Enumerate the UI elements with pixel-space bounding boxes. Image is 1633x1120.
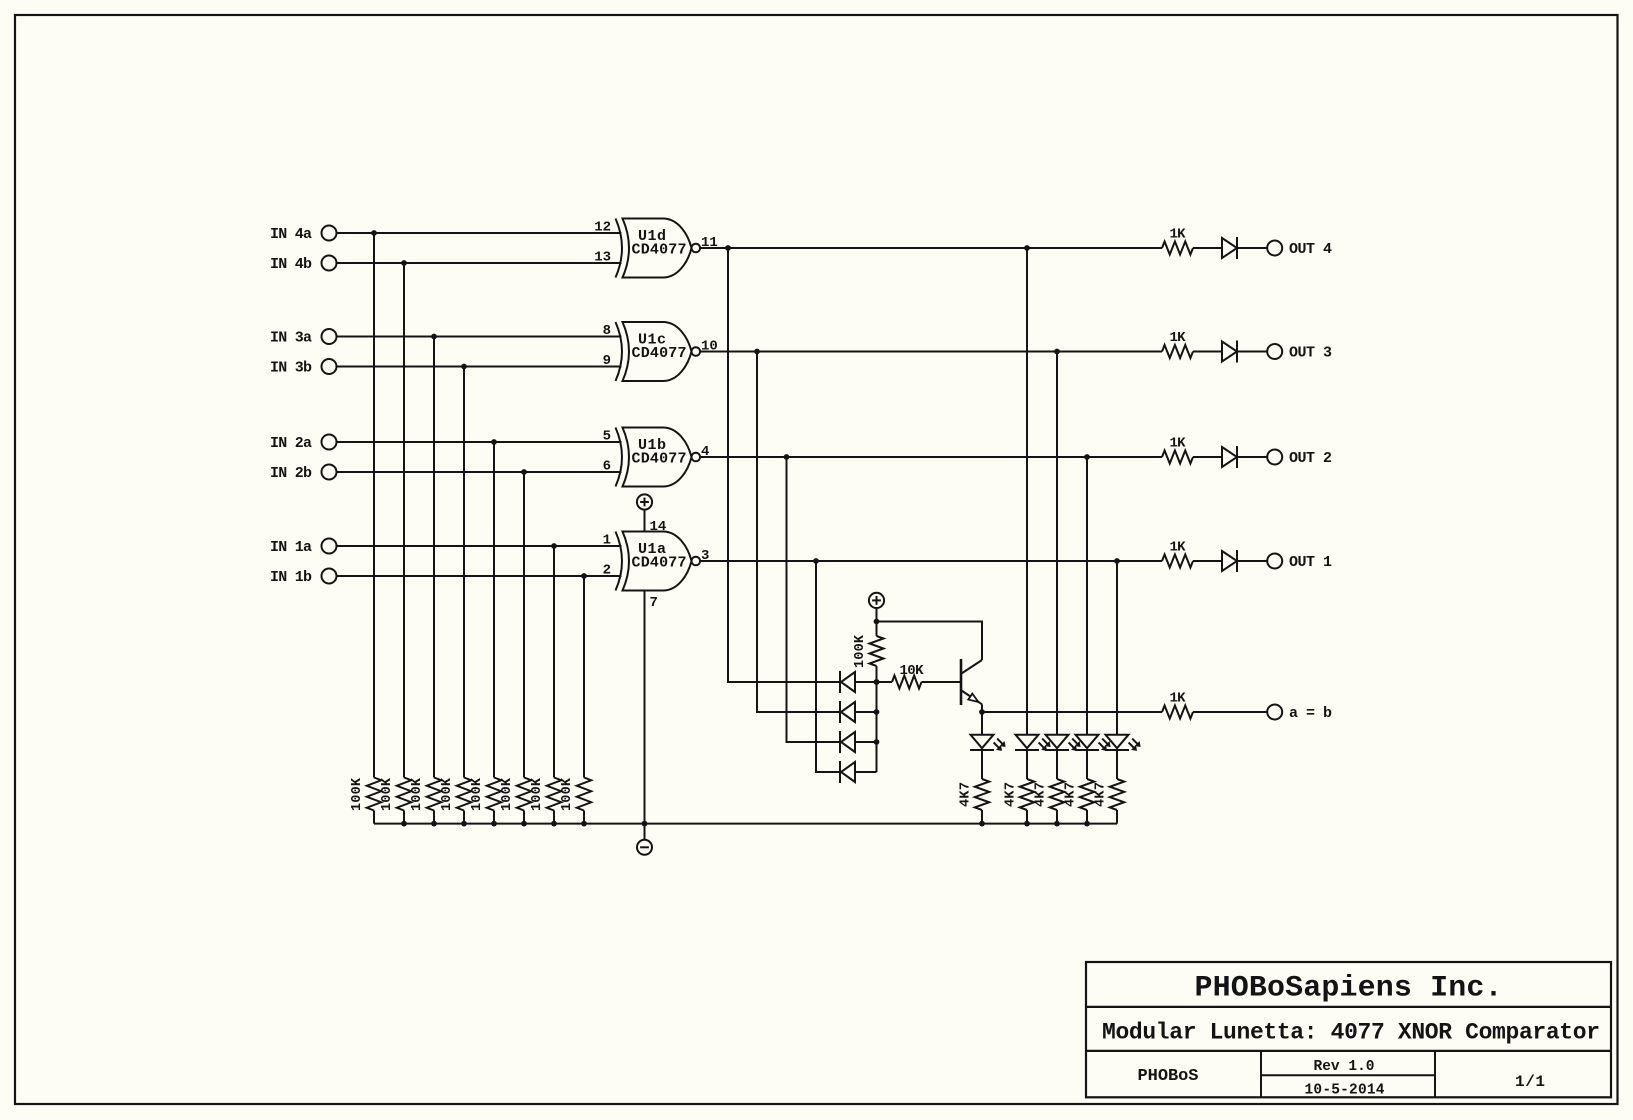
diode D4 wired-AND (from U1a output) xyxy=(839,761,841,783)
wire 100K #3 to ground bus xyxy=(433,811,435,824)
wire diode D4 anode to common node xyxy=(855,771,877,773)
resistor 4K7 #3 xyxy=(1050,779,1064,810)
wire 10K to transistor base xyxy=(922,681,961,683)
output bubble U1c xyxy=(692,347,701,356)
resistor 100K pulldown #1 xyxy=(367,778,381,811)
wire 100K #4 to ground bus xyxy=(463,811,465,824)
wire 1K to diode (OUT 2 row) xyxy=(1193,456,1222,458)
svg-text:2: 2 xyxy=(603,563,611,579)
resistor 10K base xyxy=(892,676,922,689)
svg-text:12: 12 xyxy=(594,220,611,236)
node junction 4K7 #2 on ground bus xyxy=(1024,821,1030,827)
op-amp-style XNOR gate U1a CD4077 body xyxy=(616,532,623,591)
wire U1d output to 1K resistor xyxy=(700,247,1162,249)
node junction IN 4a xyxy=(371,230,377,236)
svg-text:Modular Lunetta: 4077 XNOR Com: Modular Lunetta: 4077 XNOR Comparator xyxy=(1102,1020,1600,1046)
wire 1K to a=b terminal xyxy=(1193,711,1267,713)
resistor 100K pulldown #8 xyxy=(577,778,591,811)
node junction IN 3b xyxy=(461,364,467,370)
LED D5 xyxy=(981,712,983,735)
title block rev/date divider xyxy=(1261,1074,1435,1076)
svg-text:4K7: 4K7 xyxy=(959,782,974,807)
wire emitter to junction xyxy=(981,704,983,712)
svg-text:CD4077: CD4077 xyxy=(632,450,687,467)
svg-text:9: 9 xyxy=(603,353,611,369)
node junction 100K #4 on ground bus xyxy=(461,821,467,827)
wire IN 4b pulldown drop xyxy=(403,263,405,778)
svg-text:IN 1b: IN 1b xyxy=(270,569,312,586)
node junction 100K #3 on ground bus xyxy=(431,821,437,827)
wire IN 2b to gate pin 6 xyxy=(337,471,622,473)
wire LED D7 to 4K7 xyxy=(1056,750,1058,779)
wire diode to terminal (OUT 4 row) xyxy=(1238,247,1267,249)
node junction 100K #5 on ground bus xyxy=(491,821,497,827)
node junction 100K #2 on ground bus xyxy=(401,821,407,827)
input terminal IN 1a xyxy=(322,539,337,554)
svg-text:6: 6 xyxy=(603,459,611,475)
node junction U1b output to LED column xyxy=(1084,454,1090,460)
svg-text:1K: 1K xyxy=(1170,436,1187,452)
resistor 4K7 #5 xyxy=(1110,779,1124,810)
svg-text:IN 3b: IN 3b xyxy=(270,360,312,377)
svg-text:100K: 100K xyxy=(440,777,455,811)
resistor 100K pulldown #4 xyxy=(457,778,471,811)
output terminal OUT 3 xyxy=(1267,344,1282,359)
wire IN 2a to gate pin 5 xyxy=(337,441,622,443)
resistor 1K (a=b row) xyxy=(1162,706,1193,719)
resistor 4K7 #2 xyxy=(1020,779,1034,810)
svg-text:100K: 100K xyxy=(530,777,545,811)
svg-text:4K7: 4K7 xyxy=(1064,782,1079,807)
wire 4K7 #2 to ground bus xyxy=(1026,810,1028,824)
node junction IN 2b xyxy=(521,469,527,475)
wire IN 1a to gate pin 1 xyxy=(337,545,622,547)
svg-text:CD4077: CD4077 xyxy=(632,345,687,362)
wire 4K7 #4 to ground bus xyxy=(1086,810,1088,824)
wire 100K #7 to ground bus xyxy=(553,811,555,824)
wire IN 4a to gate pin 12 xyxy=(337,232,622,234)
resistor 1K (OUT 1 row) xyxy=(1162,555,1193,568)
wire diode D1 anode to common node xyxy=(855,681,877,683)
svg-text:OUT 3: OUT 3 xyxy=(1289,345,1332,362)
title block divider 1 xyxy=(1086,1006,1611,1008)
wire U1a output drop to LED xyxy=(1116,561,1118,735)
wire IN 1b pulldown drop xyxy=(583,576,585,778)
wire IN 2b pulldown drop xyxy=(523,472,525,778)
output terminal OUT 2 xyxy=(1267,450,1282,465)
resistor 100K bias xyxy=(876,622,878,637)
wire 100K #8 to ground bus xyxy=(583,811,585,824)
op-amp-style XNOR gate U1d CD4077 body xyxy=(616,219,623,278)
transistor Q1 NPN xyxy=(960,659,963,705)
resistor 100K pulldown #2 xyxy=(397,778,411,811)
output terminal OUT 1 xyxy=(1267,554,1282,569)
node junction U1b output to diode network xyxy=(784,454,790,460)
wire LED D5 to 4K7 xyxy=(981,750,983,779)
ground -V supply symbol xyxy=(644,824,646,840)
diode D1 wired-AND (from U1d output) xyxy=(839,671,841,693)
wire LED D8 to 4K7 xyxy=(1086,750,1088,779)
title block vertical divider right xyxy=(1434,1051,1436,1097)
svg-text:100K: 100K xyxy=(410,777,425,811)
svg-text:4K7: 4K7 xyxy=(1094,782,1109,807)
wire IN 3b pulldown drop xyxy=(463,367,465,778)
node junction U1d output to diode network xyxy=(725,245,731,251)
LED D9 xyxy=(1106,735,1129,749)
wire U1d output drop to AND diode xyxy=(728,248,841,682)
resistor 1K (OUT 4 row) xyxy=(1162,242,1193,255)
wire U1d output drop to LED xyxy=(1026,248,1028,735)
diode D3 wired-AND (from U1b output) xyxy=(839,731,841,753)
wire diode D3 anode to common node xyxy=(855,741,877,743)
wire IN 3b to gate pin 9 xyxy=(337,366,622,368)
wire emitter junction to 1K (a=b row) xyxy=(982,711,1162,713)
node junction diode anode row 682 xyxy=(874,679,880,685)
svg-text:CD4077: CD4077 xyxy=(632,554,687,571)
wire U1c output drop to LED xyxy=(1056,352,1058,735)
node junction U1c output to diode network xyxy=(754,349,760,355)
node junction IN 4b xyxy=(401,260,407,266)
wire 100K #5 to ground bus xyxy=(493,811,495,824)
resistor 1K (OUT 2 row) xyxy=(1162,451,1193,464)
svg-text:Rev 1.0: Rev 1.0 xyxy=(1314,1059,1375,1075)
wire 100K #6 to ground bus xyxy=(523,811,525,824)
svg-text:IN 2a: IN 2a xyxy=(270,435,312,452)
node junction 100K #8 on ground bus xyxy=(581,821,587,827)
svg-text:IN 4b: IN 4b xyxy=(270,256,312,273)
title block divider 2 xyxy=(1086,1050,1611,1052)
wire LED D9 to 4K7 xyxy=(1116,750,1118,779)
node junction 4K7 #4 on ground bus xyxy=(1084,821,1090,827)
node junction bias top xyxy=(874,619,880,625)
node junction U1d output to LED column xyxy=(1024,245,1030,251)
svg-text:OUT 4: OUT 4 xyxy=(1289,241,1332,258)
resistor 1K (OUT 3 row) xyxy=(1162,345,1193,358)
input terminal IN 2b xyxy=(322,465,337,480)
input terminal IN 4b xyxy=(322,256,337,271)
svg-text:100K: 100K xyxy=(470,777,485,811)
input terminal IN 2a xyxy=(322,435,337,450)
wire 4K7 #5 to ground bus xyxy=(1116,810,1118,824)
node junction IN 2a xyxy=(491,439,497,445)
svg-text:1: 1 xyxy=(603,533,611,549)
LED D7 xyxy=(1046,735,1069,749)
node junction U1c output to LED column xyxy=(1054,349,1060,355)
wire 4K7 #3 to ground bus xyxy=(1056,810,1058,824)
wire diode to terminal (OUT 1 row) xyxy=(1238,560,1267,562)
svg-text:8: 8 xyxy=(603,323,611,339)
wire U1b output drop to LED xyxy=(1086,457,1088,735)
svg-text:PHOBoS: PHOBoS xyxy=(1138,1067,1199,1086)
wire wired-AND common vertical xyxy=(876,682,878,772)
title block frame xyxy=(1086,962,1611,1097)
wire U1c output to 1K resistor xyxy=(700,351,1162,353)
ground bus wire xyxy=(374,823,1117,825)
LED D6 xyxy=(1016,735,1039,749)
resistor 100K pulldown #6 xyxy=(517,778,531,811)
svg-text:IN 2b: IN 2b xyxy=(270,465,312,482)
output bubble U1d xyxy=(692,244,701,253)
wire 1K to diode (OUT 3 row) xyxy=(1193,351,1222,353)
svg-text:13: 13 xyxy=(594,250,611,266)
power +V symbol for U1a pin 14 xyxy=(637,494,652,509)
node junction IN 1b xyxy=(581,573,587,579)
svg-text:PHOBoSapiens Inc.: PHOBoSapiens Inc. xyxy=(1195,972,1503,1006)
output bubble U1a xyxy=(692,557,701,566)
svg-text:10-5-2014: 10-5-2014 xyxy=(1305,1083,1385,1099)
svg-text:1K: 1K xyxy=(1170,330,1187,346)
resistor 4K7 #1 xyxy=(975,779,989,810)
node junction 4K7 #1 on ground bus xyxy=(979,821,985,827)
node junction U1a output to LED column xyxy=(1114,558,1120,564)
svg-text:100K: 100K xyxy=(560,777,575,811)
output terminal OUT 4 xyxy=(1267,241,1282,256)
wire IN 3a to gate pin 8 xyxy=(337,336,622,338)
node junction diode anode row 742 xyxy=(874,739,880,745)
svg-text:CD4077: CD4077 xyxy=(632,241,687,258)
op-amp-style XNOR gate U1b CD4077 body xyxy=(616,428,623,487)
resistor 100K pulldown #5 xyxy=(487,778,501,811)
resistor 100K pulldown #7 xyxy=(547,778,561,811)
diode D2 wired-AND (from U1c output) xyxy=(839,701,841,723)
svg-text:OUT 1: OUT 1 xyxy=(1289,554,1332,571)
output bubble U1b xyxy=(692,453,701,462)
title block vertical divider left xyxy=(1260,1051,1262,1097)
svg-text:4K7: 4K7 xyxy=(1004,782,1019,807)
wire U1b output drop to AND diode xyxy=(787,457,842,742)
wire AND node to 10K xyxy=(877,681,893,683)
svg-text:10K: 10K xyxy=(900,663,925,679)
svg-text:IN 3a: IN 3a xyxy=(270,330,312,347)
wire +V to bias node xyxy=(876,608,878,622)
wire IN 3a pulldown drop xyxy=(433,337,435,778)
wire +V to U1a pin 14 xyxy=(644,510,646,532)
wire 100K #2 to ground bus xyxy=(403,811,405,824)
wire U1b output to 1K resistor xyxy=(700,456,1162,458)
wire 1K to diode (OUT 4 row) xyxy=(1193,247,1222,249)
node junction IN 1a xyxy=(551,543,557,549)
diode (OUT 3 row) xyxy=(1222,342,1237,362)
wire U1c output drop to AND diode xyxy=(757,352,841,713)
wire IN 4b to gate pin 13 xyxy=(337,262,622,264)
input terminal IN 3a xyxy=(322,329,337,344)
node junction pin 7 on ground bus xyxy=(642,821,648,827)
svg-text:1/1: 1/1 xyxy=(1515,1073,1545,1091)
input terminal IN 3b xyxy=(322,359,337,374)
node junction IN 3a xyxy=(431,334,437,340)
svg-text:1K: 1K xyxy=(1170,540,1187,556)
wire IN 4a pulldown drop xyxy=(373,233,375,778)
node junction U1a output to diode network xyxy=(813,558,819,564)
wire LED D6 to 4K7 xyxy=(1026,750,1028,779)
svg-text:100K: 100K xyxy=(380,777,395,811)
node junction 4K7 #3 on ground bus xyxy=(1054,821,1060,827)
svg-text:1K: 1K xyxy=(1170,691,1187,707)
svg-text:1K: 1K xyxy=(1170,227,1187,243)
svg-text:100K: 100K xyxy=(853,634,868,668)
wire IN 1b to gate pin 2 xyxy=(337,575,622,577)
diode (OUT 1 row) xyxy=(1222,551,1237,571)
wire diode to terminal (OUT 2 row) xyxy=(1238,456,1267,458)
node junction diode anode row 712 xyxy=(874,709,880,715)
svg-text:5: 5 xyxy=(603,429,611,445)
node junction emitter / a=b / LED1 xyxy=(979,709,985,715)
svg-text:7: 7 xyxy=(650,595,658,611)
input terminal IN 4a xyxy=(322,226,337,241)
svg-text:IN 1a: IN 1a xyxy=(270,539,312,556)
wire diode to terminal (OUT 3 row) xyxy=(1238,351,1267,353)
svg-text:OUT 2: OUT 2 xyxy=(1289,450,1332,467)
wire 4K7 #1 to ground bus xyxy=(981,810,983,824)
resistor 4K7 #4 xyxy=(1080,779,1094,810)
svg-text:IN 4a: IN 4a xyxy=(270,226,312,243)
input terminal IN 1b xyxy=(322,569,337,584)
diode (OUT 2 row) xyxy=(1222,447,1237,467)
node junction AND node to 10K xyxy=(874,679,880,685)
svg-text:a = b: a = b xyxy=(1289,705,1332,722)
wire IN 2a pulldown drop xyxy=(493,442,495,778)
resistor 100K pulldown #3 xyxy=(427,778,441,811)
LED D8 xyxy=(1076,735,1099,749)
svg-text:100K: 100K xyxy=(350,777,365,811)
wire U1a output to 1K resistor xyxy=(700,560,1162,562)
svg-text:100K: 100K xyxy=(500,777,515,811)
output terminal a=b xyxy=(1267,705,1282,720)
power +V symbol for transistor bias xyxy=(869,593,884,608)
svg-text:14: 14 xyxy=(650,519,667,535)
op-amp-style XNOR gate U1c CD4077 body xyxy=(616,322,623,381)
diode (OUT 4 row) xyxy=(1222,238,1237,258)
wire diode D2 anode to common node xyxy=(855,711,877,713)
wire U1a output drop to AND diode xyxy=(816,561,841,772)
wire IN 1a pulldown drop xyxy=(553,546,555,778)
wire 1K to diode (OUT 1 row) xyxy=(1193,560,1222,562)
svg-text:4K7: 4K7 xyxy=(1034,782,1049,807)
wire U1a pin 7 to ground bus xyxy=(644,591,646,824)
wire collector from bias node xyxy=(877,622,983,661)
node junction 100K #7 on ground bus xyxy=(551,821,557,827)
wire 100K #1 to ground bus xyxy=(373,811,375,824)
node junction 100K #6 on ground bus xyxy=(521,821,527,827)
